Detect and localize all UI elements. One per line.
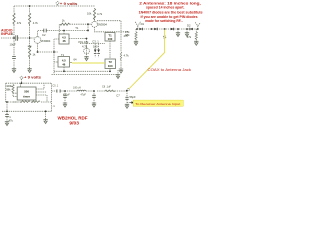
svg-text:68k: 68k — [6, 88, 11, 92]
svg-text:C1: C1 — [10, 32, 14, 36]
svg-text:100 uH: 100 uH — [73, 86, 81, 89]
svg-text:WB2HOL RDF: WB2HOL RDF — [58, 115, 88, 120]
svg-text:46: 46 — [62, 39, 66, 43]
svg-text:made for switching RF...: made for switching RF... — [145, 19, 183, 23]
svg-text:100: 100 — [108, 37, 113, 41]
svg-text:timer: timer — [23, 95, 31, 99]
svg-text:spaced 14 inches apart.: spaced 14 inches apart. — [146, 6, 185, 10]
svg-text:47k: 47k — [187, 35, 192, 39]
svg-text:100: 100 — [93, 45, 98, 49]
svg-text:100: 100 — [108, 64, 113, 68]
svg-text:C8 .1uF: C8 .1uF — [102, 85, 111, 88]
svg-text:56pF: 56pF — [130, 95, 136, 99]
svg-text:C7: C7 — [116, 93, 120, 97]
svg-text:100k: 100k — [6, 84, 12, 88]
svg-text:C3 .1: C3 .1 — [92, 39, 99, 43]
svg-text:4.7k: 4.7k — [33, 21, 39, 25]
svg-text:2N3904: 2N3904 — [98, 23, 108, 27]
svg-text:T1: T1 — [61, 53, 65, 57]
svg-text:9/03: 9/03 — [69, 121, 79, 126]
svg-text:46: 46 — [62, 62, 66, 66]
svg-text:VOL 10k: VOL 10k — [78, 40, 89, 44]
svg-text:COAX to Antenna Jack: COAX to Antenna Jack — [148, 68, 192, 72]
svg-text:47k: 47k — [17, 21, 22, 25]
svg-text:+ 9 volts: + 9 volts — [60, 2, 78, 6]
svg-text:T1: T1 — [75, 26, 79, 30]
svg-text:47u: 47u — [9, 118, 14, 122]
svg-text:D2: D2 — [187, 24, 191, 28]
svg-text:47pF: 47pF — [81, 94, 87, 97]
svg-text:2N3904: 2N3904 — [41, 39, 51, 43]
svg-text:64: 64 — [74, 58, 77, 62]
svg-text:D1: D1 — [141, 22, 145, 26]
svg-text:C5 .1: C5 .1 — [53, 84, 59, 87]
svg-text:4.7k: 4.7k — [124, 54, 130, 58]
svg-text:10uF: 10uF — [10, 43, 16, 47]
svg-text:C2: C2 — [42, 33, 46, 37]
svg-text:556: 556 — [24, 90, 29, 94]
svg-text:To Receiver Antenna Input: To Receiver Antenna Input — [135, 102, 180, 106]
svg-text:10k: 10k — [87, 12, 92, 16]
svg-text:68k: 68k — [125, 33, 130, 37]
svg-text:1N4007 diodes are the best sub: 1N4007 diodes are the best substitute — [139, 11, 203, 15]
svg-text:470pF: 470pF — [63, 94, 70, 97]
svg-text:4.7k: 4.7k — [97, 12, 103, 16]
svg-text:+ 9 volts: + 9 volts — [24, 76, 41, 80]
svg-text:4.7k: 4.7k — [82, 45, 88, 49]
